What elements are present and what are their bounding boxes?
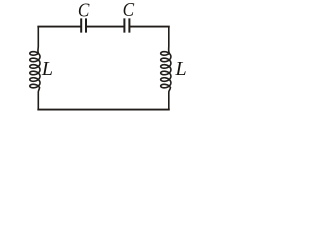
svg-text:C: C bbox=[78, 0, 90, 22]
svg-text:L: L bbox=[174, 58, 186, 80]
svg-text:C: C bbox=[123, 0, 135, 21]
svg-text:L: L bbox=[41, 58, 53, 80]
